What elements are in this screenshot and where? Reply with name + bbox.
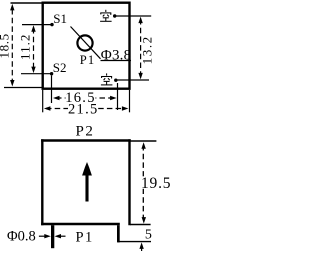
Φ0.8 right-pointing arrow — [39, 235, 46, 237]
extension line from S1 — [22, 24, 52, 26]
top extension line (side view right) — [130, 140, 157, 142]
pin right (side view) — [117, 225, 120, 242]
svg-text:Φ0.8: Φ0.8 — [7, 229, 36, 245]
Φ0.8 left-pointing arrow — [60, 235, 66, 237]
pin S2 dot — [50, 72, 53, 75]
dimension text 21.5 — [68, 103, 98, 114]
top extension line (left) — [11, 2, 44, 4]
svg-text:5: 5 — [145, 227, 152, 242]
body outline (top view square) — [43, 3, 130, 89]
svg-text:Φ3.8: Φ3.8 — [101, 48, 132, 64]
extension line down from S2 — [51, 76, 53, 104]
extension line from bottom right pin — [116, 79, 149, 81]
dimension text 16.5 — [66, 92, 96, 103]
pin S1 dot — [50, 23, 53, 26]
svg-text:19.5: 19.5 — [141, 175, 171, 192]
extension line down from left edge — [42, 90, 44, 112]
svg-text:11.2: 11.2 — [17, 34, 32, 60]
dimension 5 lower arrow — [139, 242, 143, 249]
terminal glyph kong (top right) — [100, 10, 112, 21]
dimension 18.5 line — [11, 9, 13, 82]
extension line down from bottom right pin — [117, 83, 119, 110]
dimension 11.2 line — [33, 28, 35, 70]
side view body: top edge — [41, 139, 131, 141]
dimension 19.5 line — [142, 145, 144, 220]
extension line B (pin bottom right) — [118, 241, 151, 243]
terminal glyph kong (bottom right) — [101, 73, 113, 85]
pin P1 (side view) — [51, 225, 54, 248]
dimension 13.2 line — [140, 19, 142, 77]
extension line from S2 — [21, 73, 52, 75]
side view body: bottom edge — [41, 223, 120, 225]
pin dot (bottom right) — [114, 79, 117, 82]
svg-text:21.5: 21.5 — [68, 101, 99, 117]
extension line from top right pin — [115, 15, 152, 17]
svg-text:13.2: 13.2 — [140, 35, 155, 64]
extension line A (body bottom right) — [130, 224, 151, 226]
extension line down from right edge — [129, 90, 131, 112]
svg-text:P1: P1 — [76, 229, 94, 245]
bottom extension line (left) — [4, 87, 43, 89]
leader line for hole diameter — [71, 27, 101, 59]
polarity arrow — [85, 174, 88, 202]
dimension text 19.5 — [140, 176, 171, 189]
dimension 21.5 line — [46, 108, 126, 110]
side view body: right edge — [128, 139, 130, 225]
svg-text:S2: S2 — [53, 60, 67, 75]
svg-text:P1: P1 — [80, 53, 96, 67]
svg-text:S1: S1 — [53, 11, 67, 26]
svg-text:18.5: 18.5 — [0, 33, 12, 58]
hole circle — [77, 35, 92, 50]
leader underline — [101, 60, 132, 62]
svg-text:P2: P2 — [76, 124, 95, 140]
pin dot (top right) — [113, 14, 116, 17]
side view body: left edge — [41, 139, 43, 225]
dimension 16.5 line — [56, 97, 116, 99]
